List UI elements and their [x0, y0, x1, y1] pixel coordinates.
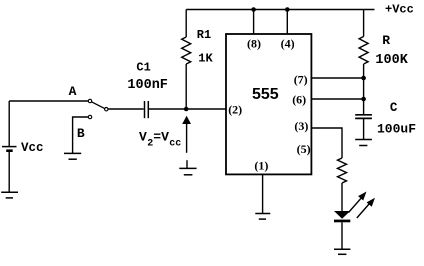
- wire switch B contact to ground: [73, 117, 89, 153]
- wire left drop to battery: [8, 101, 10, 146]
- ground V2: [179, 160, 196, 175]
- wire R1 top lead: [185, 10, 187, 38]
- resistor LED series: [338, 158, 347, 183]
- svg-text:Vcc: Vcc: [21, 141, 44, 155]
- ground LED: [334, 249, 350, 254]
- wire pin3 to LED branch: [311, 128, 342, 158]
- battery Vcc: [2, 147, 17, 151]
- LED arrow 1: [349, 192, 367, 213]
- wire battery to ground: [8, 152, 10, 192]
- voltage source V2 arrowhead: [182, 116, 191, 124]
- svg-text:555: 555: [252, 86, 279, 103]
- ground C: [355, 140, 372, 146]
- svg-text:R1: R1: [197, 28, 211, 42]
- svg-text:100uF: 100uF: [377, 122, 416, 137]
- wire A to switch: [9, 100, 88, 102]
- svg-text:B: B: [77, 126, 85, 141]
- IC U1 555: [226, 34, 311, 174]
- wire pin6 to node: [311, 98, 363, 100]
- switch S1 contact B: [88, 115, 91, 118]
- svg-text:(7): (7): [294, 72, 308, 86]
- LED arrow 2: [357, 198, 375, 218]
- svg-text:(8): (8): [247, 37, 261, 51]
- wire top +Vcc rail: [186, 9, 374, 11]
- node pin8 on rail: [251, 7, 256, 12]
- switch S1 blade: [92, 102, 105, 109]
- svg-text:(4): (4): [281, 37, 295, 51]
- wire right rail top lead: [363, 10, 365, 37]
- resistor R1: [182, 37, 191, 64]
- wire R1 bottom lead to node: [185, 64, 187, 109]
- svg-text:A: A: [69, 84, 77, 99]
- capacitor C1: [145, 101, 149, 118]
- wire pin4 lead: [286, 10, 288, 35]
- svg-text:+Vcc: +Vcc: [385, 3, 414, 17]
- ground B: [64, 153, 81, 159]
- wire pin7 to R: [311, 77, 363, 79]
- svg-text:C1: C1: [136, 60, 150, 74]
- ground pin1: [255, 214, 270, 220]
- ground battery: [1, 192, 18, 198]
- svg-text:(6): (6): [292, 92, 306, 106]
- svg-text:C: C: [390, 101, 398, 115]
- svg-text:(5): (5): [297, 142, 311, 156]
- svg-text:R: R: [382, 33, 390, 48]
- svg-text:=V: =V: [153, 130, 169, 145]
- node C1 R1 pin2 junction: [184, 107, 189, 112]
- voltage source V2 arrow tail: [186, 124, 188, 153]
- LED D1 cathode bar: [334, 220, 350, 223]
- wire R bottom to C top: [363, 64, 365, 114]
- capacitor C: [355, 115, 372, 119]
- svg-text:cc: cc: [169, 139, 181, 150]
- LED D1 triangle: [334, 211, 350, 219]
- switch S1 contact A: [88, 99, 91, 102]
- node pin4 on rail: [285, 7, 290, 12]
- switch S1 pole: [105, 108, 108, 111]
- wire switch pole to C1: [108, 108, 143, 110]
- svg-text:(2): (2): [228, 102, 242, 116]
- node pin7 junction: [361, 76, 366, 81]
- wire node to pin2: [186, 108, 226, 110]
- wire pin8 lead: [253, 10, 255, 35]
- svg-text:100K: 100K: [375, 53, 408, 68]
- wire C to ground: [363, 118, 365, 139]
- svg-text:1K: 1K: [198, 52, 213, 66]
- wire C1 to node: [149, 108, 186, 110]
- svg-text:(3): (3): [294, 119, 308, 133]
- wire resistor to LED: [341, 183, 343, 211]
- svg-text:(1): (1): [254, 159, 268, 173]
- wire LED to ground: [341, 222, 343, 249]
- wire pin1 to ground: [262, 174, 264, 213]
- svg-text:100nF: 100nF: [127, 78, 168, 93]
- svg-text:V: V: [139, 130, 147, 145]
- resistor R: [359, 37, 368, 65]
- label V2=Vcc: [139, 130, 181, 150]
- node pin6 junction: [361, 97, 366, 102]
